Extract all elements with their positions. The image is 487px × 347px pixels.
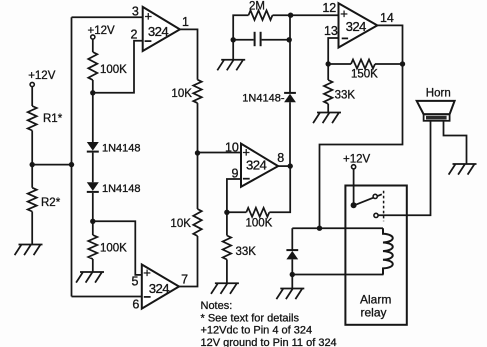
label 1N4148 D3: [242, 93, 285, 105]
wire coil box bottom: [292, 274, 383, 276]
wire D2 to node C: [92, 193, 94, 221]
node B junction: [90, 90, 95, 95]
wire node M to ground: [291, 275, 293, 289]
wire R2 to ground: [31, 212, 33, 245]
wire 33K to ground: [226, 260, 228, 284]
svg-text:1: 1: [182, 15, 189, 29]
label R2*: [41, 197, 61, 209]
pin 3 label: [132, 5, 139, 19]
resistor 10K lower: [193, 209, 201, 236]
svg-text:6: 6: [132, 297, 139, 311]
svg-text:+12V: +12V: [88, 25, 116, 37]
diode D2 1N4148: [87, 182, 99, 192]
resistor 10K upper: [193, 80, 201, 103]
svg-text:+: +: [143, 265, 151, 280]
alarm relay box: [345, 186, 406, 325]
wire pin 13 to node J: [328, 38, 338, 64]
ground below 100K: [76, 272, 104, 283]
svg-text:100K: 100K: [100, 243, 127, 255]
resistor 100K upper-left: [88, 52, 97, 80]
supply terminal +12V (second): [88, 25, 116, 39]
relay NC contact: [373, 194, 377, 198]
svg-text:5: 5: [132, 274, 139, 288]
label 33K: [236, 246, 257, 258]
svg-text:1N4148: 1N4148: [102, 183, 141, 195]
label 2M: [249, 1, 265, 13]
label R1*: [43, 113, 63, 125]
svg-text:Horn: Horn: [426, 88, 451, 100]
svg-text:7: 7: [181, 273, 188, 287]
node J junction: [326, 61, 331, 66]
wire node J to 33K: [327, 64, 329, 80]
wire node E to ground: [232, 40, 234, 60]
node C junction: [90, 219, 95, 224]
horn magnet: [424, 114, 450, 121]
pin 8 label: [277, 151, 284, 165]
ground below relay: [276, 289, 304, 300]
wire coil box top: [292, 227, 383, 229]
op-amp U1C 324: [241, 144, 278, 187]
label 1N4148 D2: [102, 183, 141, 195]
label 10K: [170, 218, 191, 230]
diode D3 1N4148: [284, 93, 296, 102]
node E junction: [231, 37, 236, 42]
svg-text:R1*: R1*: [43, 113, 63, 125]
diode D1 1N4148: [87, 142, 99, 152]
pin 12 label: [322, 1, 336, 15]
op-amp U1B 324: [142, 265, 179, 309]
wire 2M to node F: [273, 14, 291, 16]
relay NO contact: [374, 213, 378, 217]
wire R1 to node A: [31, 131, 33, 165]
wire 100K to node B: [92, 80, 94, 93]
svg-text:R2*: R2*: [41, 197, 61, 209]
supply terminal +12V (left): [28, 70, 56, 87]
pin 7 label: [181, 273, 188, 287]
svg-text:33K: 33K: [236, 246, 257, 258]
resistor 150K: [351, 60, 375, 69]
ground below horn: [449, 164, 477, 175]
svg-text:+: +: [145, 8, 153, 23]
svg-text:+12V: +12V: [343, 153, 371, 165]
node F junction: [287, 37, 292, 42]
node A junction: [30, 162, 35, 167]
ground below 33K: [313, 113, 341, 124]
wire +12V to R1: [31, 87, 33, 106]
node L junction: [317, 226, 322, 231]
wire node G down to D3: [289, 15, 291, 93]
diode D4 flyback: [286, 250, 298, 259]
wire node G to pin 12: [291, 14, 339, 16]
wire node A to rail: [32, 164, 71, 166]
label 100K: [100, 64, 127, 76]
svg-text:10K: 10K: [170, 218, 191, 230]
resistor 2M: [249, 10, 273, 20]
wire 10K to output 7: [179, 236, 198, 287]
notes text: [201, 300, 337, 347]
svg-text:10K: 10K: [171, 88, 192, 100]
label 150K: [351, 69, 378, 81]
svg-text:Notes:: Notes:: [201, 300, 233, 312]
resistor 33K lower: [223, 236, 231, 260]
wire +12V to 100K: [92, 39, 94, 52]
wire +12V to pole: [353, 169, 355, 205]
svg-text:1N4148-: 1N4148-: [242, 93, 285, 105]
wire NO contact to horn: [378, 121, 430, 216]
wire node D to pin 10: [198, 152, 242, 154]
resistor 100K feedback: [246, 208, 269, 217]
ground below 33K: [211, 283, 239, 294]
wire output 8: [278, 165, 290, 167]
svg-text:2M: 2M: [249, 1, 265, 13]
wire node J to 150K: [328, 63, 351, 65]
label 100K: [246, 218, 273, 230]
label 33K: [335, 89, 356, 101]
relay actuator dashed line: [383, 191, 385, 222]
relay coil: [383, 228, 393, 274]
wire output 1 to 10K: [180, 29, 198, 79]
svg-text:8: 8: [277, 151, 284, 165]
wire 2M left leg: [233, 15, 248, 40]
wire 33K to ground: [327, 104, 329, 113]
svg-text:14: 14: [380, 11, 394, 25]
wire output 14 to coil: [320, 25, 403, 228]
wire rail to pin 6: [72, 296, 142, 298]
svg-text:+12V: +12V: [28, 70, 56, 82]
pin 2 label: [131, 28, 138, 42]
wire 150K to node K: [375, 63, 403, 65]
relay pole junction: [351, 202, 357, 208]
node K junction: [400, 61, 405, 66]
label Alarm relay: [360, 293, 391, 320]
wire node A to R2: [31, 165, 33, 188]
node D junction: [195, 150, 200, 155]
horn speaker cone: [417, 101, 455, 114]
pin 5 label: [132, 274, 139, 288]
label 10K: [171, 88, 192, 100]
svg-text:13: 13: [324, 24, 338, 38]
svg-text:324: 324: [148, 24, 168, 39]
wire divider rail vertical: [71, 17, 73, 296]
wire node B to pin 2: [93, 41, 143, 93]
label 100K: [100, 243, 127, 255]
supply terminal +12V (relay): [343, 153, 371, 169]
wire D3 to node H: [289, 102, 291, 166]
wire 10K to node D: [197, 103, 199, 209]
op-amp U1D 324: [339, 3, 378, 47]
wire node B to D1: [92, 93, 94, 142]
resistor 33K upper: [324, 80, 332, 104]
svg-text:324: 324: [346, 19, 366, 34]
svg-text:33K: 33K: [335, 89, 356, 101]
node G junction: [288, 13, 293, 18]
svg-text:relay: relay: [361, 306, 387, 320]
pin 1 label: [182, 15, 189, 29]
ground below node E: [217, 60, 245, 71]
svg-text:Alarm: Alarm: [360, 293, 391, 307]
wire 100K to node I: [227, 211, 246, 213]
svg-text:100K: 100K: [246, 218, 273, 230]
wire node C to pin 5: [93, 221, 142, 275]
pin 6 label: [132, 297, 139, 311]
svg-text:+12Vdc to Pin 4 of 324: +12Vdc to Pin 4 of 324: [201, 325, 313, 337]
svg-text:1N4148: 1N4148: [102, 143, 141, 155]
wire horn right lead to ground: [444, 121, 467, 164]
resistor R1*: [28, 106, 37, 131]
resistor 100K lower-left: [88, 235, 97, 259]
node I junction: [224, 210, 229, 215]
relay switch arm: [354, 194, 382, 205]
ground below R2: [15, 245, 43, 256]
svg-text:12: 12: [322, 1, 336, 15]
svg-text:324: 324: [149, 281, 169, 296]
op-amp U1A 324: [143, 7, 180, 51]
svg-text:2: 2: [131, 28, 138, 42]
wire node I to pin 9: [227, 179, 241, 212]
wire node I to 33K: [226, 212, 228, 235]
pin 13 label: [324, 24, 338, 38]
wire node C to 100K: [92, 221, 94, 235]
wire rail to pin 3: [72, 16, 143, 18]
pin 9 label: [232, 166, 239, 180]
svg-text:150K: 150K: [351, 69, 378, 81]
svg-text:10: 10: [225, 140, 239, 154]
wire node H to 100K: [269, 166, 290, 212]
wire C1 to node F: [262, 39, 290, 41]
wire node E to C1: [233, 39, 253, 41]
svg-text:12V ground to Pin 11 of 324: 12V ground to Pin 11 of 324: [201, 337, 337, 347]
wire D1 to D2: [92, 153, 94, 183]
svg-text:3: 3: [132, 5, 139, 19]
capacitor C1: [255, 32, 261, 46]
node H junction: [288, 163, 293, 168]
pin 10 label: [225, 140, 239, 154]
wire D4 to node M: [291, 259, 293, 274]
rail junction: [69, 162, 74, 167]
label Horn: [426, 88, 451, 100]
wire node to D4: [291, 228, 293, 250]
resistor R2*: [28, 188, 37, 212]
label 1N4148 D1: [102, 143, 141, 155]
node M junction: [290, 272, 295, 277]
wire 100K to ground: [92, 259, 94, 272]
svg-text:324: 324: [246, 157, 266, 172]
svg-text:100K: 100K: [100, 64, 127, 76]
svg-text:* See text for details: * See text for details: [201, 312, 300, 324]
pin 14 label: [380, 11, 394, 25]
